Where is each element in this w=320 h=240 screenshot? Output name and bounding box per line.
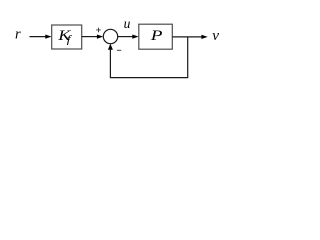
svg-text:v: v: [212, 28, 219, 44]
svg-text:r: r: [15, 27, 21, 43]
svg-text:P: P: [150, 27, 163, 44]
svg-text:u: u: [124, 16, 131, 31]
